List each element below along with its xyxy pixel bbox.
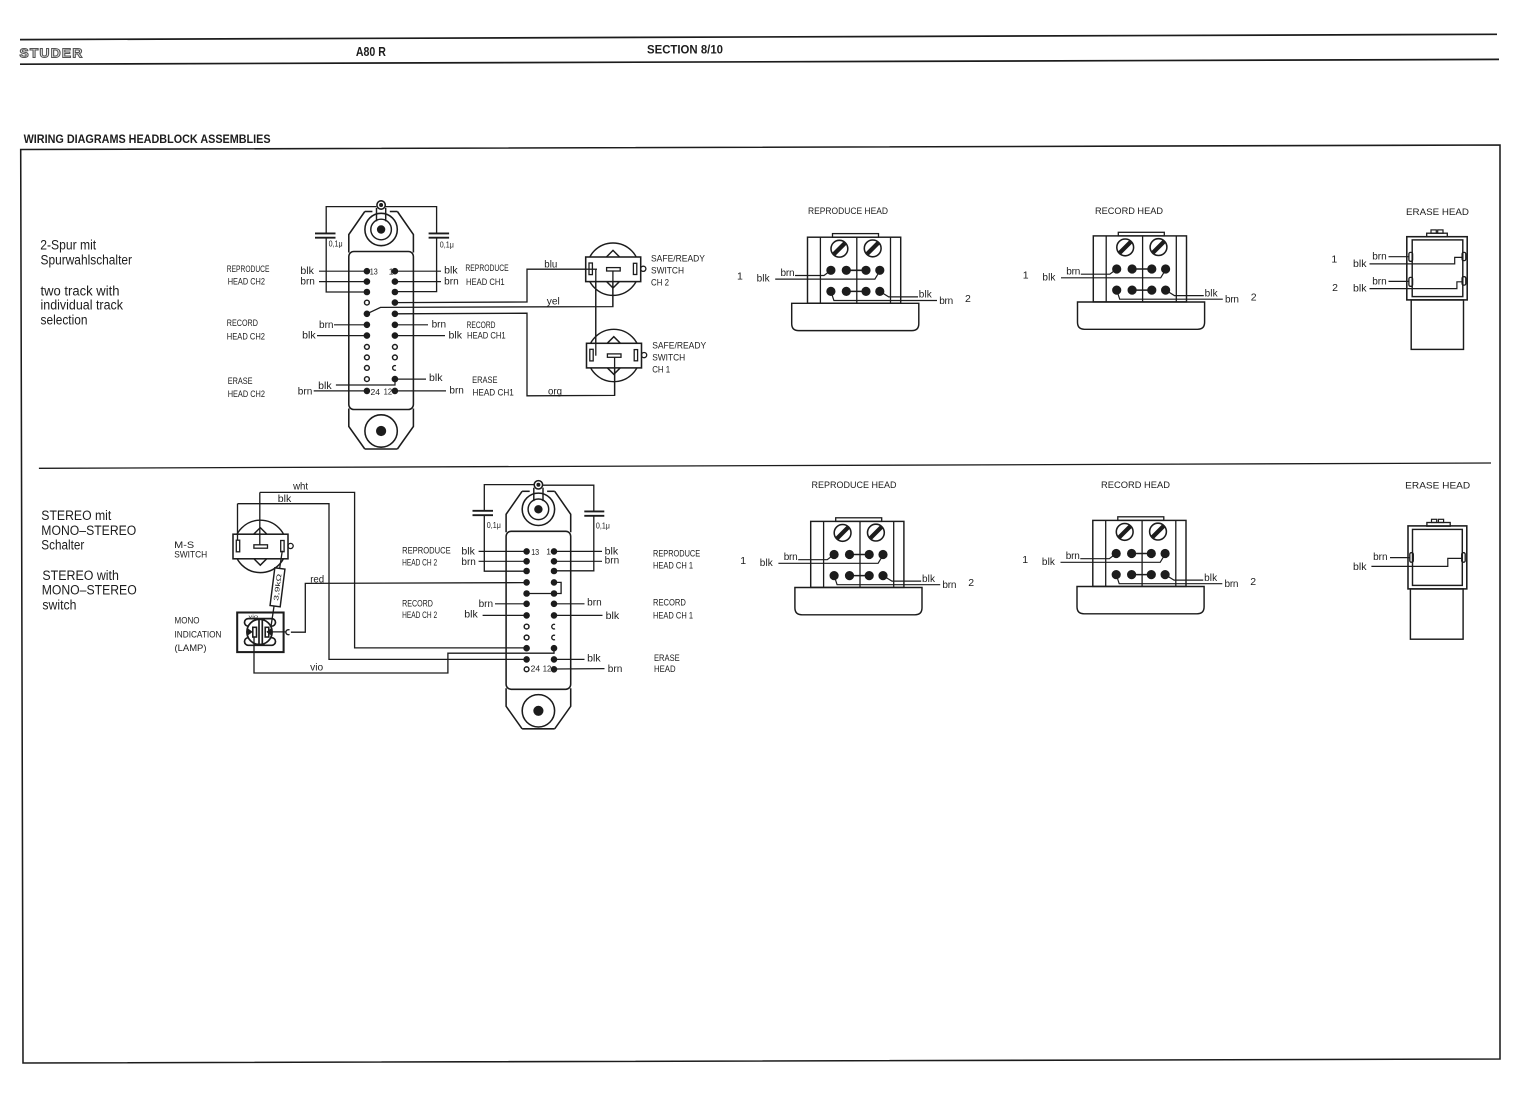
wire yel actuator stem S1 xyxy=(612,271,614,307)
wire C2 top to P1 shell lug xyxy=(385,207,436,234)
wire blk to P1 pin 11 xyxy=(336,379,395,385)
svg-text:CH 2: CH 2 xyxy=(651,278,669,289)
svg-text:blk: blk xyxy=(587,654,602,665)
P2 pin 19 (left col row 7) xyxy=(524,613,530,619)
wire wht to P2 pin 22 xyxy=(260,492,527,648)
svg-text:HEAD CH1: HEAD CH1 xyxy=(473,387,514,398)
header bottom rule xyxy=(20,59,1499,64)
P1 pin 16 (left col row 4) xyxy=(365,300,370,305)
lamp LP1 centre channel xyxy=(258,620,260,644)
wire blk to lower-right lug xyxy=(1370,282,1463,289)
P1 pin 9 (right col row 9) xyxy=(393,355,398,360)
switch S2 SAFE/READY CH1 xyxy=(587,329,647,381)
P1 pin 7 (right col row 7) xyxy=(392,333,398,339)
wire blu junction inside S1 xyxy=(586,268,597,270)
wire P1 pin 2 brn xyxy=(395,281,441,283)
svg-text:RECORD: RECORD xyxy=(653,598,686,609)
wire P1 pin 7 blk xyxy=(395,335,445,337)
P2 pin 5 (right col row 5) xyxy=(551,591,557,597)
P2 pin 8 (right col row 8) xyxy=(552,624,555,629)
wire org actuator stem S2 xyxy=(614,358,616,396)
wire C3 top to P2 shell lug xyxy=(484,485,533,511)
svg-text:HEAD CH1: HEAD CH1 xyxy=(467,330,506,341)
wire C1 bottom to P1 pin 15 xyxy=(326,238,367,292)
svg-text:SAFE/READY: SAFE/READY xyxy=(652,341,707,352)
connector P1 (2-track headblock plug) xyxy=(349,201,414,449)
svg-text:ERASE HEAD: ERASE HEAD xyxy=(1405,481,1470,492)
svg-text:SWITCH: SWITCH xyxy=(174,550,207,561)
P2 pin 14 (left col row 2) xyxy=(524,559,530,565)
svg-text:REPRODUCE: REPRODUCE xyxy=(402,546,451,557)
wire P2 pin 4 to pins 16/17 strap xyxy=(527,582,562,593)
svg-text:1: 1 xyxy=(546,547,551,557)
svg-text:ERASE: ERASE xyxy=(472,375,497,386)
P2 pin 24 (left col row 12) xyxy=(524,667,529,672)
svg-text:12: 12 xyxy=(384,386,393,396)
wire link S1 left contact to S2 left contact xyxy=(595,269,597,356)
svg-text:brn: brn xyxy=(298,386,313,397)
erase head mounting tab (bottom) xyxy=(1427,523,1450,527)
svg-text:HEAD CH 2: HEAD CH 2 xyxy=(402,558,437,569)
P1 pin 17 (left col row 5) xyxy=(364,311,370,317)
svg-text:brn: brn xyxy=(605,556,620,567)
svg-text:REPRODUCE: REPRODUCE xyxy=(653,548,700,559)
P1 pin 3 (right col row 3) xyxy=(392,289,398,295)
P1 pin 11 (right col row 11) xyxy=(392,376,398,382)
svg-text:RECORD: RECORD xyxy=(467,320,496,331)
svg-text:HEAD CH2: HEAD CH2 xyxy=(227,331,265,342)
svg-text:HEAD CH2: HEAD CH2 xyxy=(228,277,265,288)
P1 pin 19 (left col row 7) xyxy=(364,333,370,339)
svg-text:RECORD: RECORD xyxy=(402,598,433,609)
svg-text:24: 24 xyxy=(531,663,541,673)
P1 pin 15 (left col row 3) xyxy=(364,289,370,295)
svg-text:HEAD CH 1: HEAD CH 1 xyxy=(653,611,693,622)
wire brn to left lug xyxy=(1390,557,1410,559)
svg-text:REPRODUCE HEAD: REPRODUCE HEAD xyxy=(812,480,897,491)
svg-text:REPRODUCE: REPRODUCE xyxy=(227,264,270,275)
wire blk to P1 pin 13 xyxy=(319,270,367,272)
wire P1 pin 12 brn xyxy=(395,390,446,392)
P2 pin 18 (left col row 6) xyxy=(524,601,530,607)
svg-text:brn: brn xyxy=(432,319,447,330)
wire S3 right contact to R1 to lamp xyxy=(271,551,282,627)
erase head lug upper-left xyxy=(1409,252,1413,261)
P2 pin 21 (left col row 9) xyxy=(524,635,529,640)
P2 pin 2 (right col row 2) xyxy=(551,559,557,565)
svg-text:HEAD: HEAD xyxy=(654,664,676,675)
svg-text:HEAD CH1: HEAD CH1 xyxy=(466,277,505,288)
erase head lug left (bottom) xyxy=(1410,553,1414,563)
wire C3 bottom to P2 pin 15 xyxy=(484,515,526,571)
P2 pin 11 (right col row 11) xyxy=(551,657,557,663)
svg-text:0,1μ: 0,1μ xyxy=(596,520,610,530)
P2 pin 15 (left col row 3) xyxy=(524,568,530,574)
svg-text:STEREO mit: STEREO mit xyxy=(41,508,111,523)
P1 pin 18 (left col row 6) xyxy=(364,322,370,328)
capacitor C1 0.1u (left) xyxy=(315,232,336,234)
wire brn to lower-left lug xyxy=(1389,280,1410,282)
P1 pin 22 (left col row 10) xyxy=(365,366,370,371)
erase head inner core (bottom) xyxy=(1413,529,1463,585)
svg-text:blu: blu xyxy=(544,259,557,270)
switch S3 M-S (mono-stereo) xyxy=(233,520,293,572)
erase head lug upper-right xyxy=(1462,252,1466,260)
lamp LP1 contact wedges xyxy=(247,629,252,636)
svg-text:blk: blk xyxy=(464,610,479,621)
svg-text:selection: selection xyxy=(41,313,88,328)
wire yel P1 pin 17 to S1 actuator xyxy=(367,271,613,314)
wire C4 bottom to P2 pin 3 xyxy=(554,516,594,571)
svg-text:Schalter: Schalter xyxy=(41,538,84,553)
P1 pin 20 (left col row 8) xyxy=(365,345,370,350)
P2 pin 9 (right col row 9) xyxy=(552,635,555,640)
wire blk to P2 pin 13 xyxy=(479,550,527,552)
svg-text:blk: blk xyxy=(302,330,317,341)
svg-text:12: 12 xyxy=(543,664,552,674)
svg-text:brn: brn xyxy=(1372,252,1387,263)
capacitor C2 0.1u (right) xyxy=(429,232,450,234)
wire P2 pin 7 blk xyxy=(554,614,603,616)
erase head shield can xyxy=(1411,300,1463,350)
wire blk to P2 pin 19 xyxy=(483,614,527,616)
svg-text:wht: wht xyxy=(292,481,308,492)
P1 pin 12 (right col row 12) xyxy=(392,388,398,394)
svg-text:vio: vio xyxy=(249,614,259,620)
wire blk to upper-right lug xyxy=(1370,257,1463,264)
erase head outer case (bottom) xyxy=(1408,526,1467,589)
P1 pin 6 (right col row 6) xyxy=(392,322,398,328)
P1 pin 5 (right col row 5) xyxy=(392,311,398,317)
svg-text:0,1μ: 0,1μ xyxy=(329,238,343,248)
P2 pin 4 (right col row 4) xyxy=(551,580,557,586)
wire blk from S3 left contact xyxy=(237,504,239,541)
P1 pin 21 (left col row 9) xyxy=(365,355,370,360)
svg-text:ERASE HEAD: ERASE HEAD xyxy=(1406,207,1469,218)
svg-text:individual track: individual track xyxy=(41,298,124,313)
wire brn to P2 pin 14 xyxy=(479,560,527,562)
svg-text:(LAMP): (LAMP) xyxy=(175,643,207,654)
wire brn to upper-left lug xyxy=(1389,256,1410,258)
svg-text:ERASE: ERASE xyxy=(228,376,253,387)
svg-text:SAFE/READY: SAFE/READY xyxy=(651,254,706,265)
svg-text:RECORD: RECORD xyxy=(227,318,258,329)
wire P2 pin 12 brn xyxy=(554,668,605,670)
wire P1 pin 1 blk xyxy=(395,270,441,272)
P1 pin 14 (left col row 2) xyxy=(364,279,370,285)
wire P2 pin 11 blk xyxy=(554,658,585,660)
svg-text:RECORD HEAD: RECORD HEAD xyxy=(1101,480,1170,491)
P2 pin 23 (left col row 11) xyxy=(524,657,530,663)
erase head mounting tab xyxy=(1427,233,1448,237)
svg-text:SWITCH: SWITCH xyxy=(652,353,685,364)
svg-text:blk: blk xyxy=(1353,284,1368,295)
lamp LP1 MONO INDICATION housing xyxy=(237,613,283,653)
svg-text:blk: blk xyxy=(1353,259,1368,270)
svg-text:WIRING DIAGRAMS HEADBLOCK ASSE: WIRING DIAGRAMS HEADBLOCK ASSEMBLIES xyxy=(24,132,271,146)
wire C4 top to P2 shell lug xyxy=(543,485,594,511)
P1 pin 1 (right col row 1) xyxy=(392,268,398,274)
svg-text:13: 13 xyxy=(370,267,378,277)
wire red lamp to P2 pin 16 xyxy=(291,583,527,633)
P2 pin 17 (left col row 5) xyxy=(524,591,530,597)
wire P1 pin 11 blk xyxy=(395,378,426,380)
svg-text:blk: blk xyxy=(461,546,476,557)
svg-text:brn: brn xyxy=(300,276,315,287)
wire C1 top to P1 shell lug xyxy=(326,207,376,234)
svg-text:CH 1: CH 1 xyxy=(652,365,670,376)
lamp LP1 contacts xyxy=(253,627,257,637)
svg-text:MONO–STEREO: MONO–STEREO xyxy=(41,523,136,538)
lamp LP1 right terminal xyxy=(286,630,290,635)
svg-text:blk: blk xyxy=(429,373,444,384)
svg-text:RECORD HEAD: RECORD HEAD xyxy=(1095,206,1163,217)
svg-text:brn: brn xyxy=(1373,552,1388,563)
connector P2 (stereo headblock plug) xyxy=(506,481,571,729)
P2 pin 3 (right col row 3) xyxy=(551,568,557,574)
P1 pin 13 (left col row 1) xyxy=(364,268,370,274)
svg-text:blk: blk xyxy=(606,611,621,622)
svg-text:ERASE: ERASE xyxy=(654,653,680,664)
switch S1 SAFE/READY CH2 xyxy=(586,243,646,295)
border frame xyxy=(21,145,1500,1063)
P1 pin 2 (right col row 2) xyxy=(392,279,398,285)
svg-text:SECTION 8/10: SECTION 8/10 xyxy=(647,43,723,57)
wire blu P1 pin 4 to S1 xyxy=(395,269,586,302)
P2 pin 20 (left col row 8) xyxy=(524,624,529,629)
svg-text:INDICATION: INDICATION xyxy=(175,629,222,640)
wire brn to P1 pin 18 xyxy=(334,324,367,326)
P2 pin 7 (right col row 7) xyxy=(551,613,557,619)
erase head lug lower-right xyxy=(1462,277,1466,285)
svg-text:0,1μ: 0,1μ xyxy=(440,239,454,249)
svg-text:24: 24 xyxy=(371,387,381,397)
svg-text:brn: brn xyxy=(587,598,602,609)
svg-text:STEREO with: STEREO with xyxy=(42,568,119,583)
svg-text:two track with: two track with xyxy=(41,283,120,298)
header top rule xyxy=(20,34,1497,39)
svg-text:brn: brn xyxy=(1372,276,1387,287)
wire org P1 pin 5 to S2 actuator xyxy=(395,313,615,396)
svg-text:Spurwahlschalter: Spurwahlschalter xyxy=(41,253,133,268)
svg-text:0,1μ: 0,1μ xyxy=(487,520,501,530)
svg-text:brn: brn xyxy=(444,276,459,287)
svg-text:HEAD CH 2: HEAD CH 2 xyxy=(402,610,437,621)
svg-text:vio: vio xyxy=(310,663,323,674)
P1 pin 24 (left col row 12) xyxy=(364,388,370,394)
P1 pin 8 (right col row 8) xyxy=(393,345,398,350)
svg-text:1: 1 xyxy=(1331,254,1337,266)
svg-text:SWITCH: SWITCH xyxy=(651,266,684,277)
svg-text:brn: brn xyxy=(461,557,476,568)
svg-text:A80 R: A80 R xyxy=(356,45,386,59)
svg-text:2-Spur mit: 2-Spur mit xyxy=(40,238,96,253)
wire P2 pin 2 brn xyxy=(554,560,602,562)
svg-text:13: 13 xyxy=(531,547,539,557)
lamp LP1 bulb xyxy=(247,619,272,644)
erase head shield can (bottom) xyxy=(1410,589,1463,639)
P2 pin 1 (right col row 1) xyxy=(551,549,557,555)
wire vio lamp to P2 pin 10 xyxy=(254,637,554,673)
wire wht from S3 actuator xyxy=(259,492,261,544)
erase head lug lower-left xyxy=(1409,277,1413,286)
wire blk to right lug xyxy=(1371,558,1461,566)
wire brn to P2 pin 18 xyxy=(495,603,527,605)
svg-text:blk: blk xyxy=(449,330,464,341)
P2 pin 16 (left col row 4) xyxy=(524,580,530,586)
svg-text:HEAD CH 1: HEAD CH 1 xyxy=(653,561,693,572)
P2 pin 12 (right col row 12) xyxy=(551,667,557,673)
svg-text:switch: switch xyxy=(42,597,76,612)
wire brn to P1 pin 24 xyxy=(314,390,367,392)
svg-text:2: 2 xyxy=(1332,282,1338,294)
P2 pin 10 (right col row 10) xyxy=(551,645,557,651)
erase head outer case xyxy=(1407,237,1467,300)
P2 pin 6 (right col row 6) xyxy=(551,601,557,607)
wire P2 pin 1 blk xyxy=(554,550,602,552)
svg-text:1: 1 xyxy=(389,266,394,276)
wire lamp right contact to terminal xyxy=(269,631,286,633)
svg-text:REPRODUCE HEAD: REPRODUCE HEAD xyxy=(808,206,888,217)
wire P1 pin 6 brn xyxy=(395,324,428,326)
wire link S1 to S2 xyxy=(595,269,597,356)
wire blk to P2 pin 23 xyxy=(238,504,527,660)
wire C2 bottom to P1 pin 3 xyxy=(395,238,437,292)
svg-text:red: red xyxy=(310,574,324,585)
capacitor C4 0.1u (right) xyxy=(584,510,604,512)
wire P2 pin 6 brn xyxy=(554,603,585,605)
svg-text:blk: blk xyxy=(444,266,459,277)
svg-text:REPRODUCE: REPRODUCE xyxy=(465,263,508,274)
lamp LP1 lobes xyxy=(245,619,276,627)
P1 pin 4 (right col row 4) xyxy=(392,300,398,306)
P2 pin 22 (left col row 10) xyxy=(524,645,530,651)
svg-text:brn: brn xyxy=(479,599,494,610)
svg-text:yel: yel xyxy=(547,296,560,307)
svg-text:brn: brn xyxy=(449,386,464,397)
erase head inner core xyxy=(1412,240,1463,297)
svg-text:STUDER: STUDER xyxy=(20,46,84,61)
P1 pin 10 (right col row 10) xyxy=(393,366,396,371)
erase head lug right (bottom) xyxy=(1462,553,1466,563)
P2 pin 13 (left col row 1) xyxy=(524,549,530,555)
svg-text:MONO: MONO xyxy=(175,616,200,627)
section divider xyxy=(39,463,1491,468)
P1 pin 23 (left col row 11) xyxy=(365,377,370,382)
svg-text:brn: brn xyxy=(608,664,623,675)
wire brn to P1 pin 14 xyxy=(319,281,367,283)
svg-text:brn: brn xyxy=(319,320,334,331)
svg-text:blk: blk xyxy=(1353,562,1368,573)
svg-text:HEAD CH2: HEAD CH2 xyxy=(228,389,265,400)
svg-text:org: org xyxy=(548,386,562,397)
svg-text:blk: blk xyxy=(278,494,293,505)
wire blk to P1 pin 19 xyxy=(317,335,367,337)
svg-text:MONO–STEREO: MONO–STEREO xyxy=(42,582,137,597)
capacitor C3 0.1u (left) xyxy=(473,510,494,512)
